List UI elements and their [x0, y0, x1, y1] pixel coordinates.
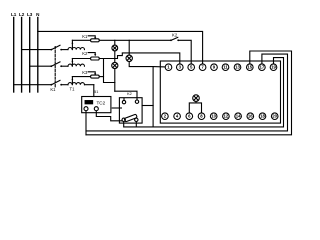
svg-text:15: 15 [247, 65, 252, 70]
svg-text:18: 18 [260, 114, 265, 119]
svg-text:K2: K2 [172, 33, 178, 38]
svg-text:10: 10 [211, 114, 216, 119]
svg-text:K1: K1 [82, 34, 88, 39]
svg-text:12: 12 [224, 114, 229, 119]
svg-text:11: 11 [223, 65, 228, 70]
svg-text:L3: L3 [27, 12, 33, 17]
svg-text:K1: K1 [50, 87, 56, 92]
svg-text:L1: L1 [11, 12, 17, 17]
svg-text:B1: B1 [94, 90, 99, 94]
svg-text:14: 14 [236, 114, 241, 119]
svg-text:17: 17 [260, 65, 265, 70]
svg-text:L2: L2 [19, 12, 25, 17]
svg-text:TC2: TC2 [97, 100, 106, 105]
svg-text:19: 19 [271, 65, 276, 70]
svg-text:K2: K2 [82, 51, 88, 56]
svg-text:K2: K2 [127, 92, 132, 96]
svg-text:16: 16 [248, 114, 253, 119]
svg-text:T1: T1 [70, 86, 76, 91]
svg-text:K3: K3 [82, 70, 88, 75]
svg-text:13: 13 [235, 65, 240, 70]
svg-text:20: 20 [272, 114, 277, 119]
